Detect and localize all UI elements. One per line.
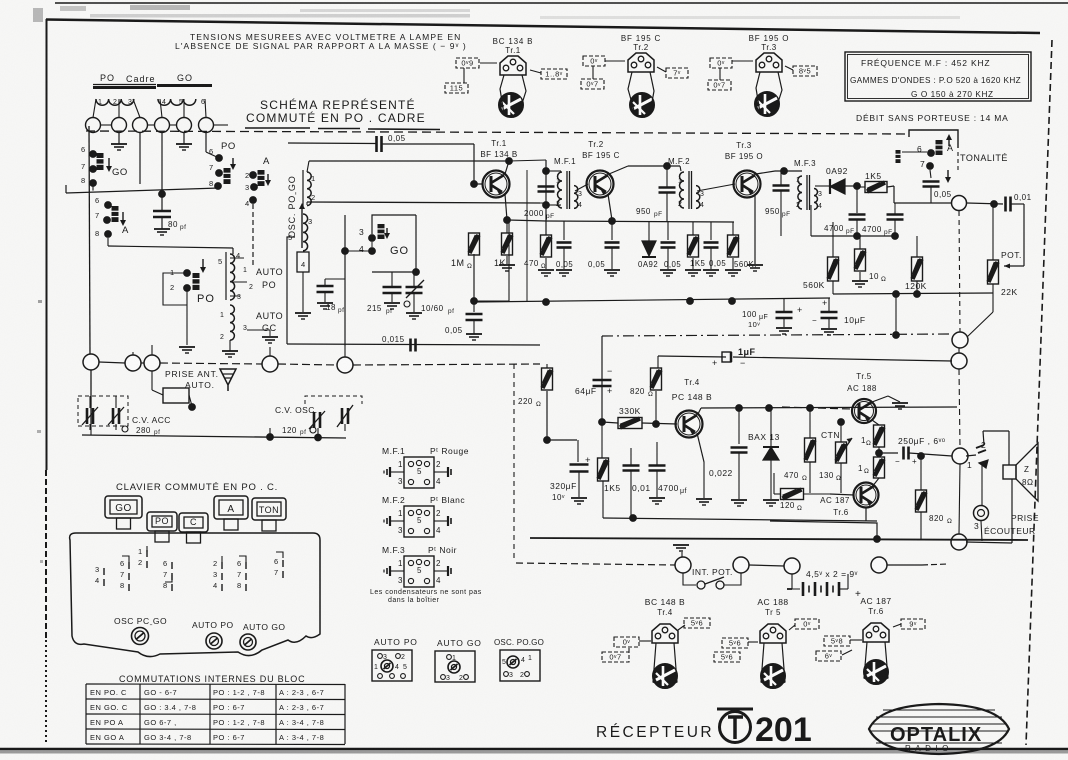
tonalite contact left — [896, 150, 901, 163]
wire AB — [958, 348, 960, 353]
rail audio bottom y518 — [603, 518, 877, 521]
CV ACC cap2 — [112, 408, 115, 424]
resistor 820 a — [651, 368, 662, 390]
cadre coil GO — [158, 99, 196, 105]
ground int pot — [673, 544, 689, 546]
wire osc pin2 right — [306, 202, 308, 205]
wire tr1 collector top — [505, 161, 509, 174]
screw osc — [132, 628, 149, 645]
capacitor 320uF — [547, 439, 577, 441]
resistor 1M — [473, 184, 475, 233]
ground under cadre 5 — [183, 133, 185, 145]
wire GO3 up — [372, 215, 416, 234]
wire tr2 emitter — [608, 194, 612, 220]
wire row y194 — [66, 188, 219, 193]
screw auto po — [206, 633, 222, 649]
wire cadre6 down — [205, 133, 207, 153]
wire tr4 collector — [698, 408, 701, 414]
wire P1 up — [682, 552, 684, 557]
capacitor 0,05 ton — [930, 170, 931, 178]
junction 80pF — [159, 191, 166, 198]
wire x896 down — [895, 294, 897, 335]
wire tr5 base — [782, 407, 852, 409]
rail bracket to tonalite — [909, 130, 958, 148]
wire x546 vert — [545, 160, 547, 235]
wire emitter rail — [507, 220, 546, 221]
ecouteur jack — [974, 506, 989, 521]
screw auto go — [240, 634, 256, 650]
wire mf3 sec to diode — [815, 185, 830, 187]
capacitor 4700 audio — [649, 464, 666, 467]
border frame top — [46, 20, 1040, 34]
wire osc pin1 right — [309, 160, 509, 162]
resistor 1ohm b — [874, 457, 885, 478]
diode 0A92 if — [642, 241, 656, 256]
key TON — [252, 498, 286, 520]
capacitor 0,05 b — [611, 221, 613, 240]
wire A4 dashed down — [252, 204, 254, 265]
wire cadre4 down — [161, 133, 163, 209]
capacitor 0,05 d — [710, 222, 712, 240]
capacitor 18pF — [324, 279, 326, 285]
resistor 560K if — [728, 235, 739, 257]
cadre coil PO — [96, 99, 134, 105]
trimmer 10/60pF — [406, 286, 423, 289]
wire 1uF rail — [658, 356, 726, 357]
wire mf1 bot — [546, 204, 561, 206]
cadre bar PO — [93, 86, 156, 89]
osc pin4 box — [297, 252, 309, 272]
node circle P2 — [733, 557, 749, 573]
wire tr5 collector gnd — [872, 396, 888, 402]
resistor 220 — [546, 364, 548, 368]
wire P4 right — [887, 564, 922, 566]
wire tr6 loop — [770, 494, 877, 539]
rail y203 (osc to 2000pF) — [540, 202, 546, 204]
wire A8 to transformer — [107, 238, 109, 246]
key GO — [105, 496, 142, 518]
wire tr1 emitter — [505, 194, 507, 220]
wire mf1 sec to tr2 base — [575, 184, 588, 191]
resistor 1K5 if — [688, 235, 699, 257]
border frame bottom — [0, 748, 1068, 751]
node circle P1 — [675, 557, 691, 573]
wire BC — [959, 369, 960, 448]
capacitor 2000pF — [538, 185, 555, 188]
wire PO pins frame — [163, 273, 187, 345]
node circle D — [951, 534, 967, 550]
antenna symbol — [220, 369, 236, 391]
wire det node right — [893, 186, 895, 203]
wire tr6 collector — [874, 480, 885, 486]
paper noise — [0, 0, 1, 1]
key C — [179, 513, 208, 532]
clavier block outline — [70, 533, 320, 657]
dash x958 — [957, 152, 959, 173]
wire GO4 left — [345, 250, 372, 252]
wire mf2 sec to tr3 — [697, 184, 735, 191]
key PO — [147, 512, 177, 531]
wire tr1 base — [474, 183, 482, 185]
logo OPTALIX — [869, 704, 1009, 754]
resistor 1ohm a — [872, 420, 879, 425]
wire x631 to rail — [630, 471, 632, 518]
capacitor 4700pF a — [849, 213, 866, 216]
cadre terminal wires — [93, 99, 96, 118]
wire dash left intpot — [516, 563, 675, 565]
resistor 120K — [912, 257, 923, 281]
rail y236 det — [811, 235, 897, 237]
frequence box — [845, 52, 1031, 101]
wire left bus x89 — [89, 126, 90, 355]
arrow up tonalite rail — [948, 137, 950, 146]
transformer AUTO PO — [230, 254, 235, 300]
capacitor 64uF — [593, 379, 612, 382]
capacitor 0,015 — [409, 339, 412, 352]
wire y160 — [509, 160, 546, 161]
resistor 470 audio — [809, 408, 811, 438]
key A — [214, 496, 248, 519]
cadre bar GO — [157, 84, 212, 87]
rail avc y303 — [474, 298, 830, 302]
main rail y539 — [530, 538, 1028, 540]
node circle P4 — [871, 557, 887, 573]
capacitor 0,05 top — [378, 144, 381, 147]
arrow down tonalite — [947, 170, 949, 180]
capacitor 0,05 osc — [471, 298, 478, 305]
IF module boundary — [526, 170, 528, 302]
battery cells — [792, 574, 800, 589]
wire osc left bracket — [287, 237, 295, 344]
CV ACC cap1 — [86, 408, 89, 424]
capacitor 0,022 — [738, 408, 740, 444]
wire tr3 collector — [756, 171, 775, 174]
capacitor 950pF b — [773, 184, 790, 187]
capacitor 100uF — [776, 311, 793, 314]
capacitor 215pF — [383, 286, 402, 289]
rail AGC y221 — [546, 221, 734, 222]
junction 330K — [599, 419, 606, 426]
wire CD — [959, 464, 960, 534]
wire x345 — [344, 215, 346, 346]
resistor 120 h — [781, 489, 804, 500]
wire P2 P3 — [749, 565, 784, 566]
border frame left — [46, 19, 48, 470]
resistor 560K b — [828, 257, 839, 281]
node circles row y363 — [90, 355, 92, 424]
logo T circle — [717, 708, 753, 711]
wire tr6 emitter up — [874, 478, 879, 487]
resistor 1K5 audio — [601, 422, 603, 458]
speaker — [1003, 465, 1016, 479]
resistor 470 if — [541, 235, 552, 257]
resistor 820 b — [920, 456, 922, 490]
capacitor 80pF — [161, 208, 163, 211]
wire tr3 emitter — [754, 194, 756, 264]
capacitor 950pF a — [659, 186, 676, 189]
node circle P3 — [784, 558, 800, 574]
node circle C — [952, 448, 968, 464]
wire det rail down — [894, 236, 896, 255]
wire 4700 junctions — [894, 203, 896, 214]
wire bottom cv rail — [82, 435, 346, 438]
node circle ton — [952, 196, 967, 211]
CV dashed box2 — [305, 396, 362, 404]
vertical dash bus x960 — [959, 211, 960, 332]
CV ACC dashed box — [78, 396, 128, 426]
switch int pot — [683, 573, 696, 585]
capacitor 10uF — [821, 311, 838, 314]
border frame right — [1026, 40, 1052, 745]
rail y335 top audio — [602, 334, 952, 336]
node circle B — [951, 353, 967, 369]
node circle A — [952, 332, 968, 348]
wire mf1 top — [546, 170, 561, 172]
wire circles up — [132, 352, 134, 355]
ground PO pins — [179, 346, 195, 348]
resistor 1K tr1 — [502, 233, 513, 255]
osc coil winding 1-2 — [307, 172, 311, 206]
wire 0,05 to base — [473, 144, 475, 184]
pattern box OSC PO.GO — [500, 650, 540, 681]
rail y345 — [287, 344, 540, 345]
ground under cadre 2 — [118, 133, 120, 145]
wire trimmer top — [372, 271, 416, 273]
scan marks left margin — [38, 300, 42, 303]
capacitor 0,05 a — [563, 221, 565, 240]
rail pot y294 — [833, 293, 993, 294]
wire rail to speaker — [966, 542, 1012, 543]
resistor 10ohm — [859, 236, 861, 249]
transformer AUTO GC — [230, 305, 234, 340]
scan smudges top — [90, 14, 470, 18]
vert dash x514 — [513, 364, 515, 561]
osc coil winding 3-5 — [303, 214, 308, 251]
wire cadre3 down — [139, 133, 141, 185]
capacitor 0,05 c — [667, 222, 669, 240]
commutations table — [86, 683, 345, 686]
capacitor 4700pF b — [893, 203, 895, 213]
border frame top scan edge — [55, 2, 1068, 4]
capacitor 0,01 audio — [623, 464, 640, 467]
wire tr2 collector — [609, 166, 628, 174]
connector box — [163, 388, 189, 403]
cadre terminals row — [86, 118, 101, 133]
capacitor 0,01 ton — [967, 203, 1003, 204]
dashed rail y132 — [86, 131, 560, 133]
wire tr4 emitter — [697, 433, 704, 435]
